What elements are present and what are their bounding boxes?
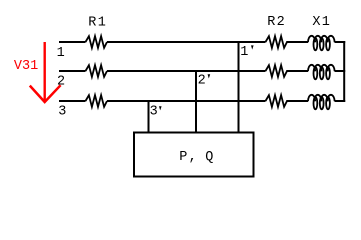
svg-text:3: 3 bbox=[150, 105, 158, 120]
svg-text:2: 2 bbox=[198, 74, 206, 89]
svg-text:3: 3 bbox=[58, 104, 66, 119]
svg-text:1: 1 bbox=[240, 45, 248, 60]
svg-text:Q: Q bbox=[205, 150, 214, 165]
svg-text:X1: X1 bbox=[312, 15, 331, 30]
svg-text:R2: R2 bbox=[267, 15, 286, 30]
svg-text:2: 2 bbox=[57, 75, 65, 90]
svg-text:P,: P, bbox=[179, 150, 198, 165]
svg-text:1: 1 bbox=[57, 46, 65, 61]
svg-text:R1: R1 bbox=[88, 16, 107, 31]
svg-text:V31: V31 bbox=[14, 59, 38, 74]
